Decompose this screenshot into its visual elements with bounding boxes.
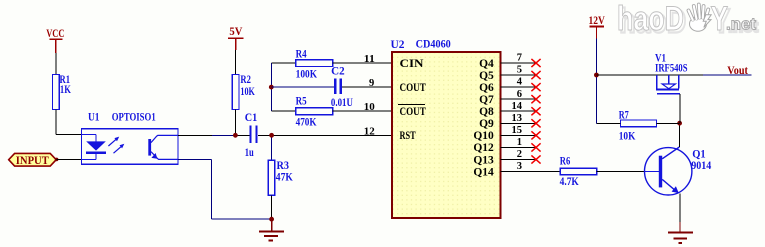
svg-text:4.7K: 4.7K	[560, 176, 579, 188]
svg-text:Q6: Q6	[479, 82, 494, 94]
svg-text:47K: 47K	[276, 171, 293, 183]
svg-text:5V: 5V	[229, 24, 242, 38]
svg-text:10K: 10K	[619, 130, 636, 142]
svg-text:R4: R4	[296, 49, 307, 61]
svg-text:VCC: VCC	[46, 26, 64, 40]
svg-text:0.01U: 0.01U	[331, 97, 354, 109]
svg-text:Q5: Q5	[479, 70, 494, 82]
svg-text:14: 14	[512, 101, 523, 112]
svg-text:Q12: Q12	[473, 142, 494, 154]
svg-text:U2: U2	[391, 39, 405, 51]
svg-text:CIN: CIN	[400, 58, 425, 70]
svg-text:Vout: Vout	[727, 63, 748, 77]
svg-text:12V: 12V	[589, 13, 606, 27]
svg-text:1K: 1K	[60, 84, 71, 96]
svg-text:CD4060: CD4060	[416, 39, 451, 51]
svg-text:Q8: Q8	[479, 106, 494, 118]
svg-text:R5: R5	[296, 95, 307, 107]
svg-text:Q1: Q1	[692, 148, 706, 160]
svg-text:9014: 9014	[691, 160, 711, 172]
svg-text:U1: U1	[88, 111, 100, 123]
svg-text:11: 11	[364, 54, 375, 65]
svg-text:4: 4	[517, 77, 523, 88]
svg-text:Q13: Q13	[473, 154, 494, 166]
svg-text:INPUT: INPUT	[16, 155, 50, 167]
svg-text:R6: R6	[560, 156, 571, 168]
svg-text:COUT: COUT	[400, 106, 427, 118]
svg-text:10: 10	[364, 102, 375, 113]
svg-text:IRF540S: IRF540S	[655, 63, 688, 75]
svg-text:15: 15	[512, 125, 523, 136]
svg-text:7: 7	[517, 53, 522, 64]
svg-text:1: 1	[517, 137, 522, 148]
svg-text:haoD: haoD	[617, 0, 684, 38]
svg-text:Q7: Q7	[479, 94, 494, 106]
svg-text:Q14: Q14	[473, 166, 494, 178]
svg-text:R7: R7	[619, 109, 629, 121]
svg-text:R2: R2	[240, 74, 251, 86]
svg-text:Q4: Q4	[479, 58, 494, 70]
svg-text:2: 2	[517, 149, 522, 160]
svg-text:5: 5	[517, 65, 522, 76]
svg-text:100K: 100K	[296, 68, 318, 80]
svg-text:9: 9	[369, 78, 374, 89]
svg-text:Q9: Q9	[479, 118, 494, 130]
svg-text:.net: .net	[726, 15, 756, 34]
svg-text:COUT: COUT	[400, 82, 427, 94]
svg-text:470K: 470K	[296, 116, 317, 128]
svg-text:6: 6	[517, 89, 522, 100]
svg-text:OPTOISO1: OPTOISO1	[112, 111, 156, 123]
svg-text:3: 3	[517, 161, 522, 172]
svg-text:13: 13	[512, 113, 523, 124]
svg-text:Q10: Q10	[473, 130, 494, 142]
svg-text:1u: 1u	[245, 147, 254, 159]
svg-text:C2: C2	[331, 65, 345, 77]
svg-text:12: 12	[364, 126, 375, 137]
svg-text:10K: 10K	[240, 86, 255, 98]
svg-text:RST: RST	[400, 130, 416, 142]
svg-text:C1: C1	[245, 112, 258, 124]
